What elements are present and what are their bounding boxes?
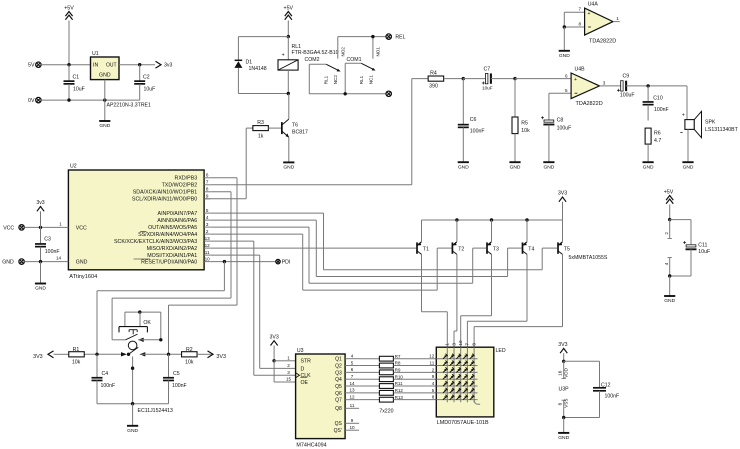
wire diode top — [238, 37, 288, 60]
terminal 0V — [28, 97, 41, 104]
svg-text:5: 5 — [206, 208, 209, 213]
svg-text:R4: R4 — [430, 71, 437, 77]
svg-text:U3P: U3P — [558, 387, 569, 393]
wire pin8 to OK switch — [112, 192, 231, 340]
terminal VCC — [3, 225, 24, 232]
svg-text:5: 5 — [351, 360, 354, 365]
svg-text:R11: R11 — [395, 381, 403, 386]
svg-text:RESET/UPDI/AIN0/PA0: RESET/UPDI/AIN0/PA0 — [141, 260, 197, 266]
shift register U3 M74HC4094 — [286, 348, 345, 448]
svg-text:5: 5 — [432, 388, 435, 393]
power 3v3 (VCC) — [36, 200, 44, 228]
resistor R1 — [33, 347, 84, 366]
svg-text:4: 4 — [351, 354, 354, 359]
svg-text:10: 10 — [349, 425, 355, 430]
svg-text:10: 10 — [458, 340, 463, 346]
svg-text:GND: GND — [35, 286, 46, 292]
ground (C11) — [664, 276, 675, 304]
svg-text:100nF: 100nF — [470, 129, 485, 135]
svg-text:GND: GND — [76, 260, 88, 266]
svg-text:12: 12 — [349, 394, 355, 399]
capacitor C9 — [617, 74, 687, 99]
svg-text:ATtiny1604: ATtiny1604 — [69, 274, 97, 280]
junction common/ground rail — [131, 402, 134, 405]
svg-text:U1: U1 — [92, 51, 99, 57]
power +5V (U4 supply) — [664, 189, 674, 219]
svg-text:AP2210N-3.3TRE1: AP2210N-3.3TRE1 — [107, 103, 152, 109]
junction 0V/C1 — [67, 98, 70, 101]
svg-text:14: 14 — [56, 256, 62, 261]
ground (U3P) — [558, 418, 569, 442]
svg-text:100uF: 100uF — [557, 126, 572, 132]
terminal 5V — [28, 62, 41, 69]
svg-text:+: + — [574, 77, 577, 83]
svg-text:U2: U2 — [70, 164, 77, 170]
power +5V (regulator input) — [64, 6, 74, 65]
svg-text:2: 2 — [287, 363, 290, 368]
svg-text:C7: C7 — [483, 67, 490, 73]
svg-text:C1: C1 — [73, 75, 80, 81]
capacitor C8 — [541, 116, 571, 162]
svg-text:+5V: +5V — [284, 6, 294, 12]
svg-text:4: 4 — [206, 215, 209, 220]
svg-text:VCC: VCC — [3, 225, 14, 231]
junction C7/R5 — [513, 77, 516, 80]
svg-text:7: 7 — [351, 374, 354, 379]
junction COM1 rail — [344, 92, 347, 95]
svg-text:SCL/XDIR/AIN11/WO0/PB0: SCL/XDIR/AIN11/WO0/PB0 — [132, 197, 197, 203]
svg-text:VDD: VDD — [563, 367, 568, 377]
wire C6 to C7 — [463, 78, 487, 80]
svg-text:8: 8 — [432, 395, 435, 400]
svg-text:NC1: NC1 — [368, 75, 373, 85]
svg-text:GND: GND — [2, 260, 14, 266]
capacitor C4 — [92, 354, 116, 403]
diode D1 1N4148 — [234, 59, 266, 72]
wire GND row — [24, 261, 62, 263]
wire MCU to T4 base — [210, 220, 521, 276]
wire 0V row — [41, 99, 140, 101]
svg-text:1: 1 — [445, 343, 450, 346]
capacitor C6 — [458, 79, 485, 162]
svg-text:CLK: CLK — [301, 373, 312, 379]
svg-text:6: 6 — [351, 367, 354, 372]
wire MCU to T3 base — [210, 227, 486, 283]
svg-text:EC11J1524413: EC11J1524413 — [138, 408, 173, 414]
wire pin6 to encoder B — [169, 178, 238, 354]
wire T4 collector to LED column — [467, 254, 527, 347]
svg-text:4: 4 — [664, 262, 669, 265]
svg-text:NO2: NO2 — [340, 47, 345, 57]
junction VDD/C12 — [562, 360, 565, 363]
svg-text:2: 2 — [432, 367, 435, 372]
svg-text:7x220: 7x220 — [379, 409, 393, 415]
svg-text:T6: T6 — [292, 122, 298, 128]
svg-text:+: + — [282, 53, 285, 59]
svg-text:SDA/XCK/AIN10/WO1/PB1: SDA/XCK/AIN10/WO1/PB1 — [133, 190, 198, 196]
svg-text:3V3: 3V3 — [33, 354, 43, 360]
svg-text:C2: C2 — [143, 75, 150, 81]
resistor R13 220 — [359, 395, 436, 402]
svg-text:GND: GND — [543, 164, 554, 170]
wire encoder channel B — [140, 352, 183, 356]
wire pin10 to PDI — [210, 261, 275, 263]
svg-text:7: 7 — [206, 180, 209, 185]
svg-text:5: 5 — [565, 88, 568, 93]
power 3V3 (U3P) — [558, 342, 567, 361]
svg-text:8: 8 — [206, 187, 209, 192]
svg-text:MISO/RXD/AIN2/PA2: MISO/RXD/AIN2/PA2 — [147, 246, 198, 252]
ground (U4A) — [559, 27, 570, 59]
svg-text:16: 16 — [558, 370, 563, 376]
svg-text:8: 8 — [558, 402, 563, 405]
svg-text:3: 3 — [206, 222, 209, 227]
wire 5V row — [41, 64, 90, 66]
junction rail T3 — [490, 218, 493, 221]
op-amp U4B TDA2822D — [565, 67, 603, 107]
junction +5V/C11 top — [668, 218, 671, 221]
resistor R5 — [512, 79, 530, 162]
wire encoder ground rail — [97, 403, 169, 405]
svg-text:13: 13 — [349, 388, 355, 393]
svg-text:9: 9 — [432, 374, 435, 379]
encoder common wire — [131, 357, 134, 404]
svg-text:Q8: Q8 — [335, 406, 342, 412]
resistor R12 220 — [359, 388, 436, 395]
wire T1 collector to LED column — [422, 254, 448, 347]
svg-text:GND: GND — [458, 164, 469, 170]
junction OUT/C2 — [138, 63, 141, 66]
capacitor C5 — [163, 354, 187, 403]
svg-text:R7: R7 — [395, 354, 401, 359]
svg-text:RXD/PB3: RXD/PB3 — [175, 176, 198, 182]
junction C11 bottom — [668, 274, 671, 277]
svg-text:NC2: NC2 — [333, 75, 338, 85]
ground (C8) — [543, 162, 554, 170]
svg-text:OUT/AIN5/WO5/PA5: OUT/AIN5/WO5/PA5 — [148, 225, 197, 231]
svg-text:4: 4 — [432, 381, 435, 386]
transistor T6 BC817 — [281, 94, 308, 162]
svg-text:U4B: U4B — [575, 67, 586, 73]
wire MCU pin7 to R4 (audio PWM) — [210, 79, 428, 185]
svg-text:R13: R13 — [395, 395, 404, 400]
ground (R6) — [643, 162, 654, 170]
svg-text:T1: T1 — [423, 246, 429, 252]
svg-text:R3: R3 — [257, 120, 264, 126]
svg-text:1k: 1k — [258, 133, 264, 139]
transistor T4 — [522, 220, 535, 254]
ground (U1) — [99, 100, 110, 129]
wire U1 OUT to 3v3 — [119, 64, 155, 66]
svg-text:SS/XDIR/AIN4/WO4/PA4: SS/XDIR/AIN4/WO4/PA4 — [138, 232, 197, 238]
svg-text:100nF: 100nF — [45, 249, 60, 255]
wire T2 collector to LED column — [454, 254, 457, 347]
svg-text:14: 14 — [349, 381, 355, 386]
svg-text:100nF: 100nF — [605, 393, 620, 399]
svg-text:TDA2822D: TDA2822D — [589, 39, 616, 45]
junction NO1 rail — [371, 35, 374, 38]
svg-text:AINN0/AIN6/PA6: AINN0/AIN6/PA6 — [157, 218, 197, 224]
wire encoder channel A — [84, 352, 130, 356]
svg-text:R9: R9 — [395, 368, 401, 373]
ground (C3) — [35, 262, 46, 292]
svg-text:7: 7 — [465, 343, 470, 346]
svg-text:R6: R6 — [654, 131, 661, 137]
capacitor C1 — [64, 65, 85, 100]
svg-text:C8: C8 — [557, 118, 564, 124]
svg-text:5xMMBTA1055S: 5xMMBTA1055S — [569, 255, 608, 261]
svg-text:VCC: VCC — [76, 225, 87, 231]
svg-text:NO1: NO1 — [375, 47, 380, 57]
svg-text:Q2: Q2 — [335, 363, 342, 369]
svg-text:13: 13 — [205, 236, 211, 241]
svg-text:C12: C12 — [601, 383, 611, 389]
svg-text:SCK/XCK/EXTCLK/AIN3/WO3/PA3: SCK/XCK/EXTCLK/AIN3/WO3/PA3 — [114, 239, 197, 245]
svg-text:LMD07057AUE-101B: LMD07057AUE-101B — [437, 420, 489, 426]
svg-text:10uF: 10uF — [482, 86, 493, 91]
svg-text:100nF: 100nF — [172, 383, 187, 389]
svg-text:3V3: 3V3 — [558, 342, 567, 348]
svg-text:R2: R2 — [186, 347, 193, 353]
svg-text:6: 6 — [206, 173, 209, 178]
svg-text:M74HC4094: M74HC4094 — [296, 443, 326, 449]
svg-text:D: D — [301, 366, 305, 372]
resistor R6 — [645, 128, 661, 162]
resistor R9 220 — [359, 368, 436, 375]
relay contact COM1 — [345, 57, 375, 94]
wire pin13 to CLK — [210, 241, 295, 375]
svg-text:T3: T3 — [493, 246, 499, 252]
svg-text:SPK: SPK — [705, 120, 716, 126]
wire relay contacts bottom rail — [309, 93, 386, 95]
svg-text:100nF: 100nF — [654, 107, 669, 113]
junction 5V/C1 — [67, 63, 70, 66]
wire pin10 to encoder A — [97, 262, 224, 355]
junction A/C4 — [95, 353, 98, 356]
svg-text:3: 3 — [451, 343, 456, 346]
svg-text:390: 390 — [429, 84, 438, 90]
relay contact NO1 — [373, 37, 381, 59]
capacitor C12 — [564, 361, 620, 417]
ground (T6) — [283, 162, 294, 170]
svg-text:9: 9 — [351, 418, 354, 423]
ground (encoder) — [127, 404, 138, 434]
svg-text:4.7: 4.7 — [654, 138, 661, 144]
transistor T2 — [452, 220, 465, 254]
svg-text:GND: GND — [664, 298, 675, 304]
U3P VSS pin 8 — [558, 399, 569, 418]
capacitor C7 — [482, 67, 515, 91]
junction relay coil bottom — [287, 92, 290, 95]
wire pin12 to T1 base — [210, 247, 416, 249]
svg-text:C4: C4 — [102, 371, 109, 377]
svg-text:COM1: COM1 — [347, 57, 362, 63]
relay coil RL1 — [278, 37, 339, 94]
svg-text:C11: C11 — [698, 243, 707, 249]
junction B/C5 — [167, 353, 170, 356]
junction STR/3V3 — [272, 359, 275, 362]
svg-text:10uF: 10uF — [73, 87, 85, 93]
LED matrix LMD07057AUE-101B — [429, 340, 506, 426]
svg-text:8: 8 — [471, 343, 476, 346]
svg-text:1N4148: 1N4148 — [249, 66, 267, 72]
resistor R11 220 — [359, 381, 436, 388]
svg-text:10uF: 10uF — [144, 87, 156, 93]
svg-text:T4: T4 — [528, 246, 534, 252]
wire U4B -input to C8 — [549, 93, 571, 119]
svg-text:C3: C3 — [44, 237, 51, 243]
svg-text:R10: R10 — [395, 374, 404, 379]
svg-text:9: 9 — [206, 194, 209, 199]
svg-text:3V3: 3V3 — [216, 354, 226, 360]
power 3V3 (U3) — [269, 334, 278, 361]
svg-text:2: 2 — [664, 232, 669, 235]
wire T5 collector to LED column — [474, 254, 562, 347]
rotary encoder EC11 knob — [128, 341, 173, 414]
svg-text:U3: U3 — [297, 348, 304, 354]
wire MCU to T5 base — [210, 213, 557, 270]
junction rail T2 — [455, 218, 458, 221]
svg-text:TDA2822D: TDA2822D — [576, 101, 603, 107]
U3 OE overbar — [300, 377, 307, 379]
svg-text:6: 6 — [565, 73, 568, 78]
svg-text:FTR-B3GA4.5Z-B10: FTR-B3GA4.5Z-B10 — [292, 50, 339, 56]
svg-text:7: 7 — [578, 7, 581, 12]
resistor R7 220 — [359, 354, 436, 361]
op-amp U4A TDA2822D — [563, 2, 620, 45]
svg-text:1: 1 — [287, 356, 290, 361]
wire U4B output — [600, 80, 621, 86]
svg-text:PDI: PDI — [282, 260, 291, 266]
svg-text:QS': QS' — [334, 428, 342, 434]
U4 power pin 4 — [664, 258, 672, 277]
svg-text:Q1: Q1 — [335, 357, 342, 363]
U3 output pins Q1-Q8 — [334, 354, 359, 435]
svg-text:10: 10 — [205, 257, 211, 262]
microcontroller U2 ATtiny1604 — [56, 164, 210, 280]
resistor R2 — [182, 347, 226, 366]
svg-text:+: + — [682, 113, 685, 119]
svg-text:3: 3 — [287, 370, 290, 375]
svg-text:GND: GND — [559, 53, 570, 59]
svg-text:MOSI/TXD/AIN1/PA1: MOSI/TXD/AIN1/PA1 — [147, 253, 197, 259]
svg-text:12: 12 — [429, 354, 435, 359]
svg-text:2: 2 — [206, 229, 209, 234]
terminal PDI — [276, 259, 291, 265]
svg-text:GND: GND — [99, 123, 110, 129]
svg-text:T5: T5 — [564, 246, 570, 252]
svg-text:Q3: Q3 — [335, 370, 342, 376]
svg-text:R12: R12 — [395, 388, 404, 393]
terminal relay common — [386, 91, 391, 96]
relay contact NO2 — [338, 37, 346, 59]
junction relay top — [287, 35, 290, 38]
svg-text:GND: GND — [683, 164, 694, 170]
capacitor C10 — [643, 86, 669, 121]
svg-text:LS1311340BT: LS1311340BT — [705, 127, 739, 133]
svg-text:AINP0/AIN7/PA7: AINP0/AIN7/PA7 — [158, 211, 198, 217]
resistor R3 — [204, 120, 281, 199]
transistor T5 — [557, 220, 608, 261]
svg-text:LED: LED — [496, 348, 506, 354]
label 7x220 — [379, 409, 393, 415]
U4 power pin 2 — [664, 220, 672, 239]
transistor T3 — [486, 220, 499, 254]
svg-text:8: 8 — [578, 22, 581, 27]
wire to U4B +input — [515, 78, 571, 80]
svg-text:OUT: OUT — [106, 63, 117, 69]
svg-text:RL1: RL1 — [359, 75, 364, 84]
wire VCC row — [24, 226, 62, 228]
svg-text:10k: 10k — [521, 128, 530, 134]
svg-text:Q7: Q7 — [335, 398, 342, 404]
svg-text:0V: 0V — [28, 98, 35, 104]
svg-text:1: 1 — [59, 221, 62, 226]
wire pin11 to D — [210, 255, 295, 368]
svg-text:+5V: +5V — [664, 189, 674, 195]
ground (R5) — [509, 162, 520, 170]
junction 0V/U1-GND — [103, 98, 106, 101]
svg-text:10k: 10k — [185, 360, 194, 366]
resistor R10 220 — [359, 374, 436, 381]
svg-text:COM2: COM2 — [305, 57, 320, 63]
wire emitter rail — [422, 219, 563, 221]
svg-text:GND: GND — [510, 164, 521, 170]
svg-text:12: 12 — [205, 243, 211, 248]
junction C9/C10 — [646, 84, 649, 87]
svg-text:GND: GND — [283, 165, 294, 171]
wire 3V3 to OE — [274, 361, 296, 382]
svg-text:C10: C10 — [653, 96, 663, 102]
svg-text:STR: STR — [301, 359, 312, 365]
svg-text:Q4: Q4 — [335, 377, 342, 383]
capacitor C3 — [35, 227, 60, 261]
power +5V (relay) — [284, 6, 294, 37]
svg-text:OE: OE — [301, 380, 309, 386]
svg-text:GND: GND — [127, 428, 138, 434]
svg-text:Q6: Q6 — [335, 391, 342, 397]
svg-text:TXD/WO2/PB2: TXD/WO2/PB2 — [162, 183, 198, 189]
wire T3 collector to LED column — [461, 254, 492, 347]
wire encoder switch row (channel) — [112, 334, 161, 342]
svg-text:C6: C6 — [470, 117, 477, 123]
svg-text:+5V: +5V — [64, 6, 74, 12]
svg-text:10uF: 10uF — [698, 249, 710, 255]
wire diode bottom — [238, 68, 288, 94]
node 3v3 output arrow — [156, 61, 173, 68]
svg-text:3V3: 3V3 — [269, 334, 278, 340]
svg-text:U4A: U4A — [588, 2, 599, 8]
svg-text:+: + — [588, 11, 591, 17]
svg-text:C5: C5 — [173, 371, 180, 377]
svg-text:3v3: 3v3 — [36, 200, 44, 206]
svg-text:BC817: BC817 — [292, 130, 308, 136]
wire U1 GND pin — [104, 80, 106, 101]
svg-text:R5: R5 — [521, 120, 528, 126]
power 3V3 (T5 rail) — [558, 191, 567, 220]
svg-text:GND: GND — [643, 164, 654, 170]
terminal REL — [386, 34, 406, 41]
junction VCC/C3 — [39, 226, 42, 229]
svg-text:5V: 5V — [28, 63, 35, 69]
svg-text:11: 11 — [350, 403, 355, 408]
voltage regulator U1 — [91, 51, 152, 109]
transistor T1 — [416, 220, 429, 254]
svg-text:OK: OK — [143, 320, 151, 326]
wire MCU to T2 base — [210, 234, 451, 290]
junction rail T4 — [525, 218, 528, 221]
capacitor C2 — [134, 65, 155, 100]
